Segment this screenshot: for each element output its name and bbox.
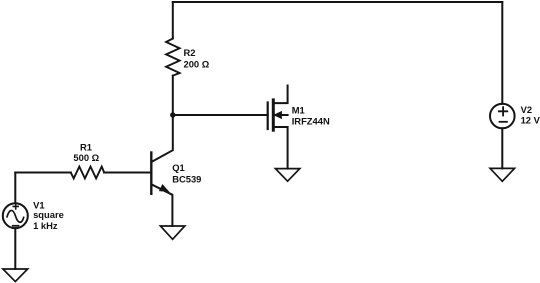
svg-text:IRFZ44N: IRFZ44N <box>292 116 330 127</box>
wire V1 to R1 <box>15 172 71 174</box>
transistor M1 channel top segment <box>272 100 275 107</box>
node A junction dot <box>170 112 175 117</box>
wire M1 drain stub <box>273 86 287 104</box>
svg-text:square: square <box>33 209 64 220</box>
ground below V1 <box>3 269 28 282</box>
svg-text:Q1: Q1 <box>172 162 185 173</box>
svg-text:R1: R1 <box>80 141 92 152</box>
wire Q1 emitter <box>152 185 173 227</box>
V1 minus sign <box>12 225 20 227</box>
wire V2 top lead <box>501 2 503 104</box>
svg-text:1 kHz: 1 kHz <box>33 220 58 231</box>
transistor M1 bulk arrow <box>274 112 281 119</box>
resistor R1 <box>71 167 104 179</box>
V1 plus sign <box>12 203 19 210</box>
svg-text:R2: R2 <box>184 47 196 58</box>
wire V1 bottom lead <box>14 228 16 269</box>
voltage source V1 <box>3 203 28 228</box>
wire node to M1 gate <box>173 114 268 116</box>
wire top rail <box>173 1 503 3</box>
resistor R2 <box>166 39 180 76</box>
wire M1 bulk stub <box>273 114 287 116</box>
transistor M1 channel bottom segment <box>272 122 275 131</box>
svg-text:BC539: BC539 <box>172 173 201 184</box>
svg-text:V2: V2 <box>521 104 532 115</box>
wire V2 bottom lead <box>501 128 503 168</box>
V2 plus sign <box>498 106 508 116</box>
wire R2 top lead <box>172 2 174 39</box>
svg-text:12 V: 12 V <box>521 115 540 126</box>
wire R2 bottom lead to node <box>172 76 174 115</box>
wire Q1 collector <box>152 115 173 162</box>
transistor M1 gate bar <box>267 103 269 130</box>
wire R1 to Q1 base <box>104 172 150 174</box>
ground below Q1 <box>160 226 184 239</box>
wire V1 top lead <box>14 173 16 204</box>
transistor Q1 base bar <box>150 153 152 194</box>
V1 sine symbol <box>7 210 24 222</box>
ground below V2 <box>490 168 514 181</box>
svg-text:500 Ω: 500 Ω <box>73 152 99 163</box>
transistor M1 channel middle segment <box>272 109 275 119</box>
ground below M1 <box>275 169 299 182</box>
V2 minus sign <box>499 121 508 123</box>
svg-text:200 Ω: 200 Ω <box>184 59 210 70</box>
wire M1 source stub and lead <box>273 127 287 169</box>
voltage source V2 <box>490 104 515 129</box>
svg-text:M1: M1 <box>292 104 305 115</box>
transistor Q1 emitter arrow <box>160 185 169 192</box>
